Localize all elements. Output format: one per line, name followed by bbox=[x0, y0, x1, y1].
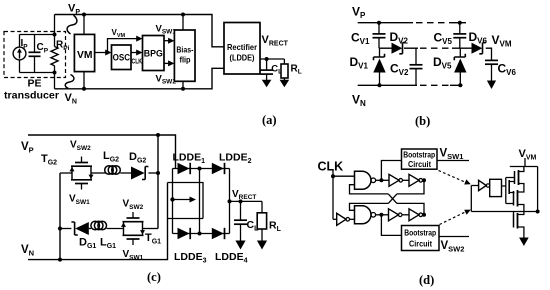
wire bridge left vertical bbox=[172, 169, 174, 234]
svg-text:Circuit: Circuit bbox=[409, 238, 432, 248]
transistor T_G1 (transmission gate) bbox=[121, 199, 161, 262]
wire left vertical (c) bbox=[59, 173, 61, 260]
wire output stage inputs bbox=[470, 186, 472, 212]
svg-text:BPG: BPG bbox=[144, 49, 163, 59]
resistor R_Pi bbox=[51, 15, 70, 89]
wire bottom rail V_N (b) bbox=[358, 84, 417, 86]
svg-text:VSW1: VSW1 bbox=[440, 148, 464, 162]
PE transducer dashed box bbox=[4, 32, 66, 78]
svg-text:TG1: TG1 bbox=[145, 232, 161, 246]
svg-text:(d): (d) bbox=[419, 273, 434, 287]
svg-text:VP: VP bbox=[68, 3, 80, 17]
svg-text:CLK: CLK bbox=[318, 160, 344, 174]
diode LDDE2 bbox=[212, 152, 252, 175]
wire VM output / V_vm bbox=[95, 39, 139, 53]
sine symbol top bbox=[67, 15, 77, 34]
block Bootstrap Circuit top bbox=[402, 149, 438, 169]
node V_VM (b) bbox=[486, 48, 492, 60]
wire NAND top out to bootstrap bbox=[381, 161, 401, 181]
wire top rail V_P (b) bbox=[358, 22, 413, 24]
svg-text:(a): (a) bbox=[262, 113, 277, 127]
svg-text:flip: flip bbox=[180, 55, 191, 65]
node arrow (current direction) bbox=[170, 197, 174, 201]
transistor M3 bbox=[514, 212, 524, 232]
svg-text:TG2: TG2 bbox=[41, 153, 57, 167]
svg-text:VN: VN bbox=[21, 244, 34, 258]
svg-text:VSW1: VSW1 bbox=[156, 24, 177, 36]
svg-text:VSW1: VSW1 bbox=[69, 194, 90, 207]
diode LDDE3 bbox=[174, 228, 207, 265]
svg-text:CLK: CLK bbox=[132, 57, 143, 66]
wire bridge middle vertical bbox=[199, 169, 201, 234]
inverter bottom chain 1 bbox=[389, 209, 410, 221]
dashed arrow bottom bbox=[440, 212, 467, 225]
wire NAND bottom out to bootstrap bbox=[381, 215, 401, 236]
svg-text:Circuit: Circuit bbox=[408, 159, 431, 169]
capacitor C_L (a) bbox=[260, 59, 282, 80]
diode D_V2 bbox=[390, 30, 409, 54]
svg-text:LDDE3: LDDE3 bbox=[174, 251, 207, 265]
svg-text:RL: RL bbox=[269, 220, 282, 234]
wire T_G2 branch bbox=[60, 172, 72, 174]
wire bracket lower bbox=[168, 218, 204, 220]
svg-text:DG2: DG2 bbox=[129, 151, 146, 165]
svg-text:VM: VM bbox=[77, 49, 93, 61]
svg-text:PE: PE bbox=[28, 78, 42, 90]
svg-text:DV2: DV2 bbox=[390, 30, 409, 46]
svg-text:VRECT: VRECT bbox=[262, 34, 289, 48]
wire bridge right vertical bbox=[229, 169, 231, 234]
svg-text:VP: VP bbox=[21, 141, 34, 155]
svg-text:(LDDE): (LDDE) bbox=[230, 53, 255, 63]
block level shifter bbox=[490, 179, 502, 196]
svg-text:RL: RL bbox=[291, 64, 302, 76]
svg-text:DV1: DV1 bbox=[350, 55, 369, 71]
diode D_V6 bbox=[469, 30, 488, 54]
svg-text:VN: VN bbox=[352, 93, 366, 109]
svg-text:(c): (c) bbox=[147, 270, 161, 284]
wire PE internal top bbox=[20, 34, 55, 36]
ground arrow (d) bbox=[523, 232, 525, 239]
svg-text:VRECT: VRECT bbox=[232, 189, 256, 201]
wire V_N rail (c) bbox=[28, 183, 168, 260]
svg-text:CV2: CV2 bbox=[390, 62, 409, 78]
diode LDDE4 bbox=[212, 228, 248, 265]
wire PE internal bottom bbox=[20, 72, 55, 74]
gate NAND top bbox=[355, 171, 390, 189]
node dots PE/rails bbox=[53, 33, 57, 37]
wire OSC to BPG / CLK bbox=[131, 52, 139, 54]
dashed arrow top bbox=[439, 171, 467, 183]
node V_SW1 (d) bbox=[437, 160, 469, 162]
ground arrow under C_V6 bbox=[487, 81, 496, 90]
capacitor C_V1 bbox=[351, 21, 386, 49]
diode D_V5 bbox=[433, 48, 467, 87]
gate NAND bottom bbox=[355, 206, 389, 224]
block OSC bbox=[112, 45, 132, 70]
svg-text:VSW2: VSW2 bbox=[156, 74, 177, 86]
svg-text:VSW2: VSW2 bbox=[70, 140, 91, 153]
inverter top chain 2 bbox=[409, 174, 426, 186]
svg-text:CV1: CV1 bbox=[351, 31, 370, 47]
wire V_P rail (a) bbox=[55, 15, 225, 47]
current source Ip bbox=[13, 35, 28, 73]
wire inner bracket bbox=[168, 183, 204, 219]
svg-text:transducer: transducer bbox=[4, 90, 59, 102]
ground under C_L (a) bbox=[262, 80, 272, 88]
inverter bottom chain 2 bbox=[409, 209, 426, 221]
capacitor Cp bbox=[29, 35, 49, 73]
svg-text:DG1: DG1 bbox=[79, 237, 96, 251]
block Bootstrap Circuit bottom bbox=[402, 226, 440, 251]
transistor M1 bbox=[515, 167, 524, 189]
svg-text:VN: VN bbox=[65, 92, 77, 106]
inductor L_G2 bbox=[103, 150, 131, 174]
diode D_G1 bbox=[71, 222, 96, 250]
resistor R_L (a) bbox=[281, 59, 302, 80]
block VM bbox=[74, 13, 94, 91]
diode D_G2 bbox=[129, 151, 158, 180]
svg-text:VVM: VVM bbox=[519, 148, 537, 162]
block Bias-flip bbox=[174, 13, 195, 91]
svg-text:VVM: VVM bbox=[112, 28, 126, 39]
block Rectifier (LDDE) bbox=[224, 23, 260, 75]
wire cross-coupling bbox=[350, 180, 425, 215]
svg-text:(b): (b) bbox=[415, 114, 430, 128]
svg-text:Bootstrap: Bootstrap bbox=[404, 228, 436, 238]
block BPG bbox=[143, 36, 165, 71]
wire middle node line (b) bbox=[379, 47, 392, 49]
svg-text:DV5: DV5 bbox=[433, 55, 452, 71]
ground under R_L (a) bbox=[280, 80, 290, 88]
svg-text:VSW2: VSW2 bbox=[123, 199, 144, 212]
inverter clk-inv bbox=[333, 213, 355, 225]
wire V_P rail (c) bbox=[28, 135, 176, 169]
wire V_N rail (a) bbox=[55, 68, 225, 89]
svg-text:CP: CP bbox=[37, 42, 49, 55]
capacitor C_L (c) bbox=[234, 201, 259, 241]
inductor L_G1 bbox=[91, 221, 116, 250]
node V_RECT (c) bbox=[230, 200, 263, 202]
transistor M2 bbox=[514, 189, 524, 212]
svg-text:LDDE1: LDDE1 bbox=[173, 152, 206, 166]
capacitor C_V6 bbox=[485, 60, 517, 81]
wire V_RECT (a) bbox=[260, 58, 284, 60]
resistor R_L (c) bbox=[257, 201, 281, 241]
wire T_G1 branch bbox=[60, 228, 71, 230]
capacitor C_V5 bbox=[434, 21, 467, 49]
svg-text:CV6: CV6 bbox=[498, 62, 517, 78]
svg-text:Bias-: Bias- bbox=[176, 45, 193, 55]
ground under R_L (c) bbox=[257, 241, 267, 250]
svg-text:IP: IP bbox=[21, 38, 29, 51]
svg-text:LDDE2: LDDE2 bbox=[219, 152, 252, 166]
sine symbol bottom bbox=[65, 75, 74, 89]
svg-text:OSC: OSC bbox=[113, 53, 131, 63]
svg-text:LG2: LG2 bbox=[103, 150, 119, 164]
wire right rail (d) bbox=[537, 167, 539, 212]
inverter output stage bbox=[479, 180, 490, 190]
svg-text:LG1: LG1 bbox=[100, 237, 116, 251]
wire BPG out V_SW2 bbox=[164, 62, 170, 64]
diode D_V1 bbox=[350, 48, 386, 87]
svg-text:CV5: CV5 bbox=[434, 31, 453, 47]
svg-text:Rectifier: Rectifier bbox=[227, 42, 258, 52]
wire center vertical (c) bbox=[157, 135, 159, 229]
ground under C_L (c) bbox=[235, 241, 245, 250]
svg-text:LDDE4: LDDE4 bbox=[215, 251, 248, 265]
inverter top chain 1 bbox=[389, 174, 409, 186]
transistor T_G2 (transmission gate) bbox=[41, 140, 94, 207]
svg-text:VP: VP bbox=[352, 5, 366, 21]
node V_SW2 (d) bbox=[439, 236, 469, 238]
svg-text:VSW1: VSW1 bbox=[123, 249, 144, 262]
svg-text:RPi: RPi bbox=[56, 40, 70, 53]
svg-text:DV6: DV6 bbox=[469, 30, 488, 46]
svg-text:VVM: VVM bbox=[492, 33, 512, 49]
wire gate routing bbox=[502, 178, 515, 204]
capacitor C_V2 bbox=[390, 48, 423, 85]
diode LDDE1 bbox=[173, 152, 206, 175]
wire BPG out V_SW1 bbox=[164, 40, 170, 42]
svg-text:VSW2: VSW2 bbox=[441, 240, 465, 254]
wire bridge top row bbox=[173, 168, 230, 170]
wire bridge bottom row bbox=[173, 233, 230, 235]
wire CLK bbox=[332, 171, 334, 220]
